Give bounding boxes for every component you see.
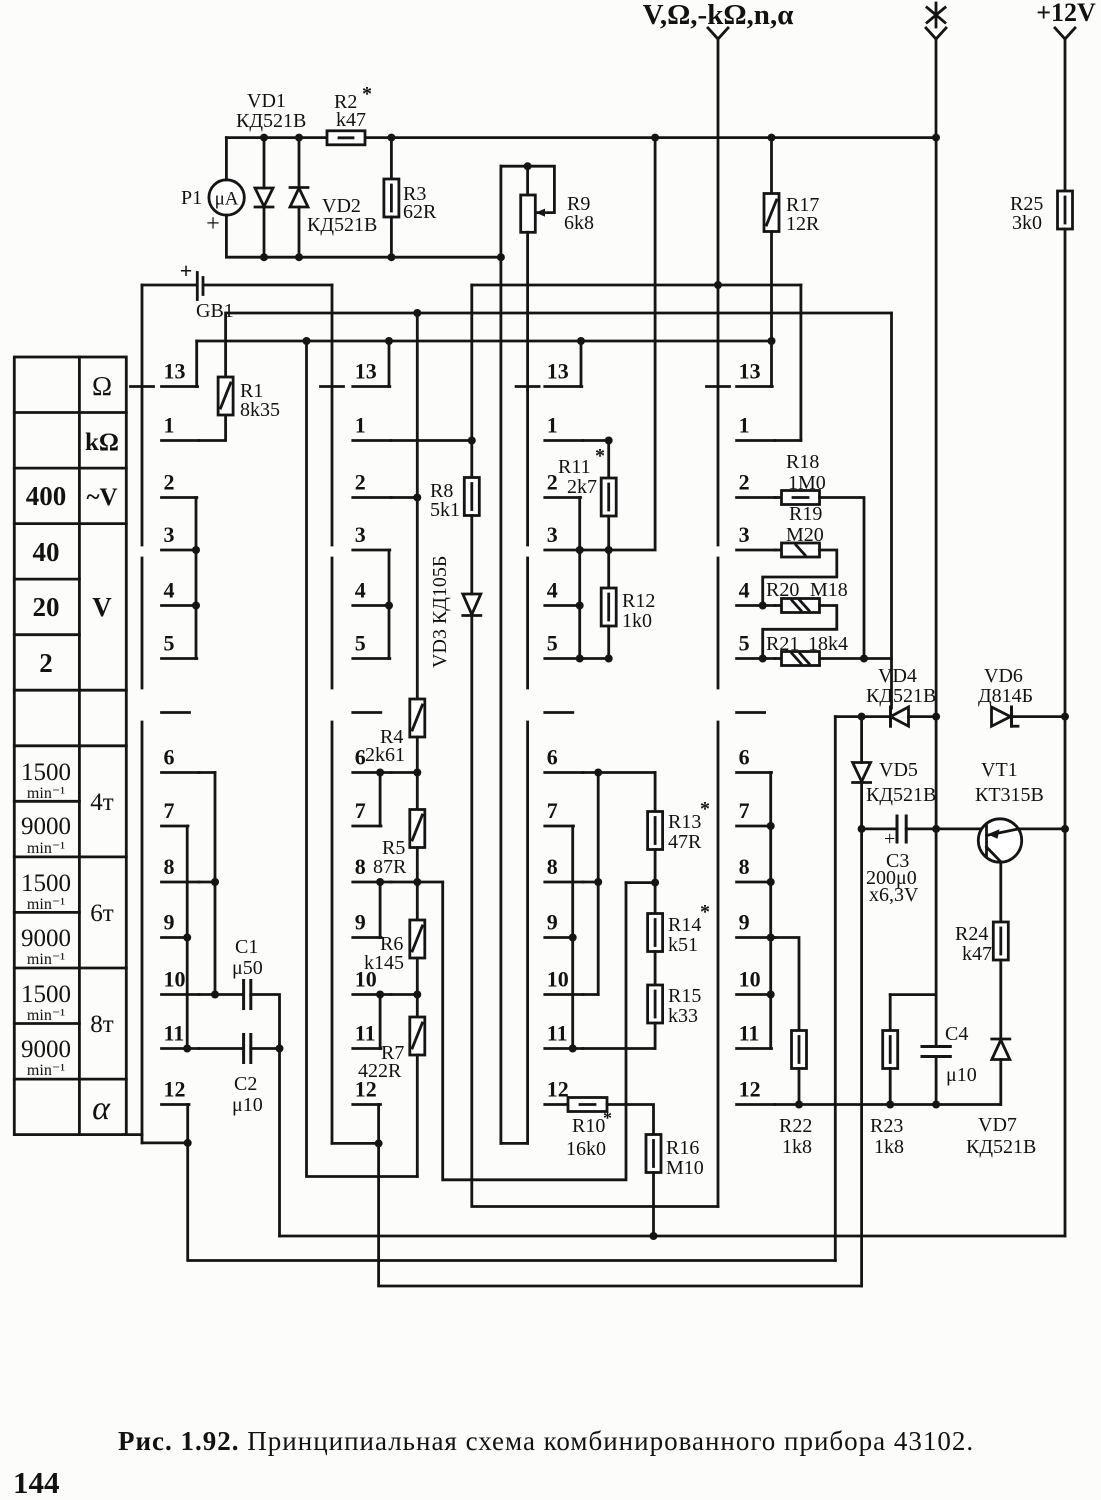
wafer 2 contact 12 xyxy=(353,1103,381,1106)
wire x306 riser y341 to R7 return xyxy=(307,341,418,1177)
svg-text:КТ315В: КТ315В xyxy=(975,784,1044,806)
wafer 3 contact 5 xyxy=(545,657,583,660)
svg-text:x6,3V: x6,3V xyxy=(869,884,919,906)
wafer3 bracket contacts 7-9-11 xyxy=(571,826,574,1049)
svg-text:КД521В: КД521В xyxy=(866,685,936,707)
svg-text:1: 1 xyxy=(547,413,558,438)
node C2 right on riser xyxy=(276,1045,284,1053)
R9 wiper arrow xyxy=(535,209,545,217)
wafer 2 contact 11 xyxy=(353,1047,381,1050)
svg-text:1500: 1500 xyxy=(21,870,71,897)
svg-text:7: 7 xyxy=(355,798,366,823)
wire R4 to R5 xyxy=(416,737,419,810)
wire +12V down to R25 xyxy=(1064,39,1067,191)
wafer3 contact1 extension to R11 xyxy=(583,439,609,442)
node R13-R14 junction xyxy=(651,879,659,887)
node P1 bottom joins R9 left line xyxy=(497,253,505,261)
node wafer4 c7 xyxy=(767,822,775,830)
node VD1 bottom xyxy=(260,253,268,261)
svg-text:3k0: 3k0 xyxy=(1012,212,1042,234)
node wafer3 c3 xyxy=(576,546,584,554)
svg-text:R11: R11 xyxy=(558,456,591,478)
wafer 2 rotor line xyxy=(331,285,334,1143)
wire terminal star down to top rail xyxy=(935,39,938,138)
wire C2 right joins riser xyxy=(251,1047,280,1050)
wire star line down right side xyxy=(935,138,938,1047)
node wafer1 c4 xyxy=(192,602,200,610)
svg-text:k47: k47 xyxy=(962,943,992,965)
svg-text:9000: 9000 xyxy=(21,1036,71,1063)
node wafer1 c3 xyxy=(192,546,200,554)
svg-text:4: 4 xyxy=(739,578,750,603)
wafer 1 contact 3 xyxy=(162,549,197,552)
wafer 1 rotor line xyxy=(141,285,144,1143)
wire R9 left line down (to bottom U-turn) xyxy=(499,166,502,1143)
svg-text:VD5: VD5 xyxy=(879,759,918,781)
wire C1 right to riser xyxy=(251,995,280,1237)
wafer 3 contact 8 xyxy=(545,881,583,884)
wafer 2 contact 7 xyxy=(353,825,381,828)
node R4 chain c10 xyxy=(413,991,421,999)
node wafer3 c11 xyxy=(569,1045,577,1053)
wafer 2 contact 13 xyxy=(353,385,390,388)
svg-text:КД521В: КД521В xyxy=(866,784,936,806)
svg-text:VD1: VD1 xyxy=(247,90,286,112)
svg-text:R16: R16 xyxy=(666,1137,699,1159)
node R17 line joins y341 xyxy=(768,337,776,345)
svg-text:12R: 12R xyxy=(786,213,820,235)
wire R23 top to C4 line xyxy=(890,993,936,996)
wafer 2 contact 4 xyxy=(353,604,390,607)
wafer 1 contact 7 xyxy=(162,825,189,828)
resistor R16 xyxy=(646,1135,661,1173)
node VD2 top xyxy=(295,134,303,142)
resistor R7 xyxy=(410,1017,425,1055)
wafer 1 contact 11 xyxy=(162,1047,200,1050)
svg-text:3: 3 xyxy=(547,522,558,547)
wire R9 top loop xyxy=(501,166,555,212)
svg-text:7: 7 xyxy=(547,798,558,823)
svg-text:R10: R10 xyxy=(572,1115,605,1137)
svg-text:GB1: GB1 xyxy=(196,300,234,322)
wafer 3 contact 2 xyxy=(545,496,581,499)
svg-text:V: V xyxy=(92,592,112,622)
svg-text:min⁻¹: min⁻¹ xyxy=(27,785,65,802)
resistor R8 xyxy=(464,478,479,516)
wire R8 to VD3 xyxy=(470,516,473,595)
svg-text:10: 10 xyxy=(164,967,186,992)
wafer 4 contact 11 xyxy=(737,1047,772,1050)
svg-text:1k8: 1k8 xyxy=(874,1136,904,1158)
wafer1 contact11 extension to C2 xyxy=(199,1047,244,1050)
wire wafer2 c8 riser down and across to R13-R14 junction riser xyxy=(443,882,626,1180)
wafer4 contact1 extension to riser xyxy=(775,439,801,442)
svg-text:12: 12 xyxy=(547,1077,569,1102)
wire wafer2 rotor bottom to junction xyxy=(332,1142,379,1145)
node VD5 top on rail xyxy=(858,713,866,721)
wafer 4 contact 6 xyxy=(737,771,772,774)
wire VD3 down to bus y1206 xyxy=(472,616,718,1207)
wafer 2 wiper tick xyxy=(321,385,344,388)
wire R1 top rail y313 xyxy=(226,312,891,315)
diode VD4 xyxy=(889,707,892,726)
svg-text:87R: 87R xyxy=(373,856,407,878)
wafer 4 contact 9 xyxy=(737,936,775,939)
svg-text:1500: 1500 xyxy=(21,759,71,786)
svg-text:R14: R14 xyxy=(668,914,701,936)
wire VT1 emitter to +12V line xyxy=(1019,828,1066,831)
node R12 bottom on c5 line xyxy=(605,655,613,663)
wafer 4 contact 7 xyxy=(737,825,772,828)
wafer2 contact12 hook down xyxy=(377,1105,380,1144)
wafer4 contact2 extension xyxy=(775,496,782,499)
node R3 bottom xyxy=(387,253,395,261)
wafer3 bracket contacts 2-3-4-5 xyxy=(578,498,581,659)
wafer 3 contact 4 xyxy=(545,604,581,607)
svg-text:R12: R12 xyxy=(622,590,655,612)
svg-text:1k0: 1k0 xyxy=(622,610,652,632)
node wafer2 c8 bracket xyxy=(376,878,384,886)
node wafer3 c5 xyxy=(576,655,584,663)
node C4 on c12 wire xyxy=(932,1101,940,1109)
wafer3 bracket contacts 6-8-10 xyxy=(597,773,600,995)
wafer 3 rotor line xyxy=(526,390,529,1143)
wafer2 bracket contacts 6-7 xyxy=(379,773,382,827)
svg-text:5: 5 xyxy=(547,631,558,656)
wafer4 contact5 extension xyxy=(775,657,782,660)
wafer 2 contact 8 xyxy=(353,881,391,884)
svg-text:R13: R13 xyxy=(668,811,701,833)
svg-text:2: 2 xyxy=(739,470,750,495)
wire wafer4 stub1 riser xyxy=(800,285,803,441)
svg-text:VD7: VD7 xyxy=(978,1114,1017,1136)
svg-text:M18: M18 xyxy=(810,579,848,601)
node R18 riser on R21 wire xyxy=(860,655,868,663)
svg-text:КД521В: КД521В xyxy=(307,214,377,236)
wire R23 bottom to c12 wire xyxy=(889,1069,892,1105)
svg-text:13: 13 xyxy=(164,359,186,384)
wafer 1 contact 5 xyxy=(162,657,197,660)
wafer 4 rotor line xyxy=(717,285,720,1207)
terminal chevron +12V xyxy=(1055,28,1075,39)
svg-text:~V: ~V xyxy=(86,484,117,511)
wafer2 bracket contacts 8-9 xyxy=(379,882,382,938)
wafer3 contact5 extension xyxy=(583,657,609,660)
svg-text:VD4: VD4 xyxy=(878,665,917,687)
svg-text:144: 144 xyxy=(13,1465,60,1500)
resistor R10 xyxy=(568,1098,607,1112)
wafer 3 contact 9 xyxy=(545,936,574,939)
svg-text:min⁻¹: min⁻¹ xyxy=(27,1007,65,1024)
wafer 3 contact 7 xyxy=(545,825,574,828)
svg-text:*: * xyxy=(700,798,710,820)
svg-text:6: 6 xyxy=(547,745,558,770)
wafer1 contact13 hook up to y341 xyxy=(195,341,198,387)
svg-text:+: + xyxy=(884,828,895,850)
svg-text:μ10: μ10 xyxy=(946,1064,977,1086)
svg-text:R22: R22 xyxy=(779,1115,812,1137)
wafer 3 contact 1 xyxy=(545,439,583,442)
wire R24 to VD7 xyxy=(999,960,1002,1039)
node wafer3 c6 bracket xyxy=(594,769,602,777)
svg-text:1500: 1500 xyxy=(21,981,71,1008)
wire R10 right to R16 xyxy=(607,1105,654,1135)
svg-text:min⁻¹: min⁻¹ xyxy=(27,840,65,857)
svg-text:5: 5 xyxy=(355,631,366,656)
transistor VT1 emitter xyxy=(987,829,1019,836)
svg-text:C4: C4 xyxy=(945,1023,968,1045)
svg-text:*: * xyxy=(700,901,710,923)
svg-text:1: 1 xyxy=(164,413,175,438)
svg-text:9: 9 xyxy=(547,910,558,935)
node R9 top junction xyxy=(524,162,532,170)
wafer 3 contact 3 xyxy=(545,549,583,552)
wafer 1 contact 12 xyxy=(162,1103,190,1106)
svg-text:μA: μA xyxy=(215,189,239,210)
wire VD4 net left riser down to wafer1 bus xyxy=(834,717,837,1261)
svg-text:8: 8 xyxy=(355,854,366,879)
resistor R1 xyxy=(224,313,227,377)
wire U-turn R9 line to wafer3 rotor bottom xyxy=(501,1142,528,1145)
resistor R15 xyxy=(648,985,663,1023)
node R3 top xyxy=(387,134,395,142)
svg-text:R21: R21 xyxy=(766,633,799,655)
wafer 4 contact 3 xyxy=(737,549,775,552)
wire wafer3 c8 extension xyxy=(583,881,598,884)
svg-text:6k8: 6k8 xyxy=(564,212,594,234)
svg-text:α: α xyxy=(92,1090,111,1127)
svg-text:11: 11 xyxy=(355,1021,376,1046)
resistor R25 xyxy=(1058,191,1073,229)
wire R20 loop to contact5 xyxy=(763,606,837,659)
node R4 chain c8 xyxy=(413,878,421,886)
wafer 2 contact 2 xyxy=(353,496,391,499)
svg-text:8: 8 xyxy=(164,854,175,879)
node R20 loop on contact5 xyxy=(759,655,767,663)
svg-text:R23: R23 xyxy=(870,1115,903,1137)
node wafer3 c8 xyxy=(594,878,602,886)
resistor R22 xyxy=(792,1031,807,1069)
svg-text:4: 4 xyxy=(547,578,558,603)
svg-text:R20: R20 xyxy=(766,579,799,601)
resistor R18 xyxy=(782,491,820,505)
svg-text:400: 400 xyxy=(26,481,67,511)
node wafer2 bottom junction xyxy=(375,1139,383,1147)
svg-text:10: 10 xyxy=(739,967,761,992)
wafer 1 contact 8 xyxy=(162,881,200,884)
svg-text:1M0: 1M0 xyxy=(788,472,826,494)
wire R21 right to VD4 riser xyxy=(820,657,892,660)
node wafer2 c10 bracket xyxy=(376,991,384,999)
svg-text:2: 2 xyxy=(355,470,366,495)
wafer 3 contact 12 xyxy=(545,1103,583,1106)
svg-text:4: 4 xyxy=(164,578,175,603)
svg-text:M10: M10 xyxy=(666,1157,704,1179)
svg-text:10: 10 xyxy=(547,967,569,992)
diode VD5 xyxy=(860,717,863,763)
resistor R3 xyxy=(390,138,393,179)
svg-text:4т: 4т xyxy=(90,789,114,816)
svg-text:КД521В: КД521В xyxy=(236,110,306,132)
wire wafer2 net down to lowest bus xyxy=(379,1143,862,1286)
svg-text:+: + xyxy=(206,211,220,237)
resistor R6 xyxy=(410,920,425,958)
node wafer2 c4 xyxy=(385,602,393,610)
svg-text:3: 3 xyxy=(355,522,366,547)
node R4 chain c6 xyxy=(413,769,421,777)
svg-text:μ50: μ50 xyxy=(232,957,263,979)
svg-text:8т: 8т xyxy=(90,1011,114,1038)
wafer4 contact9 extension to R22 xyxy=(775,938,799,1031)
svg-text:5: 5 xyxy=(739,631,750,656)
svg-text:2: 2 xyxy=(547,470,558,495)
svg-text:*: * xyxy=(362,83,372,105)
wafer4 contact4 extension xyxy=(775,604,782,607)
svg-text:11: 11 xyxy=(739,1021,760,1046)
svg-text:7: 7 xyxy=(739,798,750,823)
wafer 4 wiper tick xyxy=(707,385,730,388)
wafer2 contact10 extension xyxy=(391,993,417,996)
wafer 4 contact 10 xyxy=(737,993,772,996)
svg-text:VT1: VT1 xyxy=(981,759,1018,781)
wire P1 bottom to rail y257 xyxy=(226,215,501,257)
svg-text:6: 6 xyxy=(164,745,175,770)
node wafer4 c10 xyxy=(767,991,775,999)
svg-text:C1: C1 xyxy=(235,936,258,958)
wafer1 contact10 extension to C1 xyxy=(199,993,244,996)
svg-text:C2: C2 xyxy=(234,1073,257,1095)
capacitor C4 xyxy=(922,1045,950,1048)
svg-text:11: 11 xyxy=(547,1021,568,1046)
node VD2 bottom xyxy=(295,253,303,261)
wire R6 to R7 xyxy=(416,958,419,1017)
wire wafer1 c8 extension xyxy=(199,881,215,884)
node wafer1 c9 xyxy=(183,934,191,942)
svg-text:20: 20 xyxy=(33,592,60,622)
wire R16 bottom to bus xyxy=(652,1173,655,1237)
resistor R11 xyxy=(607,441,610,479)
wafer4 contact12 wire across to VD7 xyxy=(775,1103,1000,1106)
svg-text:min⁻¹: min⁻¹ xyxy=(27,1062,65,1079)
wafer 2 contact 3 xyxy=(353,549,390,552)
wire R22 bottom to contact12 wire xyxy=(798,1069,801,1105)
node R22 on c12 wire xyxy=(795,1101,803,1109)
svg-text:47R: 47R xyxy=(668,831,702,853)
svg-text:1: 1 xyxy=(355,413,366,438)
wafer 1 contact 4 xyxy=(162,604,197,607)
svg-text:VD3 КД105Б: VD3 КД105Б xyxy=(429,556,451,668)
svg-text:2: 2 xyxy=(164,470,175,495)
node R4 chain top xyxy=(413,309,421,317)
svg-text:9: 9 xyxy=(739,910,750,935)
wire battery left to wafer1 rotor xyxy=(142,284,196,287)
svg-text:2k7: 2k7 xyxy=(567,476,597,498)
svg-text:R24: R24 xyxy=(955,923,988,945)
svg-text:9: 9 xyxy=(355,910,366,935)
svg-text:k33: k33 xyxy=(668,1005,698,1027)
resistor R14 xyxy=(648,914,663,952)
node wafer3 c9 xyxy=(569,934,577,942)
wire C3 base rail y829 xyxy=(862,828,987,831)
node wafer3 c4 xyxy=(576,602,584,610)
terminal chevron star xyxy=(926,28,946,39)
node R11 rail tap xyxy=(651,134,659,142)
resistor R12 xyxy=(601,588,616,626)
wafer1 contact12 hook down xyxy=(186,1105,189,1143)
resistor R13 xyxy=(654,773,657,812)
wire wafer3 c10 extension xyxy=(583,993,598,996)
svg-text:9000: 9000 xyxy=(21,925,71,952)
node VD1 top xyxy=(260,134,268,142)
wafer3 contact13 hook up xyxy=(580,341,583,387)
range table frame xyxy=(14,357,126,1135)
svg-text:2: 2 xyxy=(39,648,53,678)
bottom bus y1236 xyxy=(280,1235,1066,1238)
wafer 3 rotor arm dash mark xyxy=(545,711,573,714)
node wafer1 bottom junction xyxy=(184,1139,192,1147)
wire R13-R14 junction stub left to x626 riser xyxy=(626,881,655,884)
node wafer4 c8 xyxy=(767,878,775,886)
diode VD7 xyxy=(992,1038,1010,1041)
wire R14 to R15 xyxy=(654,952,657,986)
wafer 4 contact 5 xyxy=(737,657,775,660)
wafer 4 contact 12 xyxy=(737,1103,775,1106)
svg-text:k51: k51 xyxy=(668,934,698,956)
wafer2 contact1 extension to VD3 line xyxy=(391,439,472,442)
wafer 4 contact 4 xyxy=(737,604,775,607)
svg-text:11: 11 xyxy=(164,1021,185,1046)
battery GB1 xyxy=(196,273,199,300)
wafer4 contact3 extension xyxy=(775,549,782,552)
terminal star symbol xyxy=(927,3,945,27)
svg-text:16k0: 16k0 xyxy=(566,1138,606,1160)
svg-text:8: 8 xyxy=(547,854,558,879)
potentiometer R9 xyxy=(521,195,536,232)
node wafer1 c10 joins C1 wire xyxy=(211,991,219,999)
wafer2 contact2 extension to R4 line xyxy=(391,496,417,499)
node R16 on bus y1236 xyxy=(650,1232,658,1240)
wafer 1 contact 13 xyxy=(162,385,198,388)
svg-text:8: 8 xyxy=(739,854,750,879)
wafer 1 rotor arm dash mark xyxy=(162,711,190,714)
wire VD4 node rail y717 xyxy=(835,715,1065,718)
svg-text:kΩ: kΩ xyxy=(85,429,119,456)
svg-text:1: 1 xyxy=(739,413,750,438)
wire terminal V down to node at y285 xyxy=(717,39,720,285)
svg-text:k145: k145 xyxy=(364,952,404,974)
resistor R5 xyxy=(410,810,425,848)
wire battery right to wafer2 rotor xyxy=(206,284,333,287)
wafer 1 contact 6 xyxy=(162,771,200,774)
svg-text:9: 9 xyxy=(164,910,175,935)
node +12V line on rail xyxy=(1061,713,1069,721)
node x306 tap xyxy=(303,337,311,345)
wire mid rail y285 from VD3 line to wafer4 stub1 line xyxy=(472,284,801,287)
capacitor C2 xyxy=(242,1035,245,1063)
wafer1 bracket contacts 2-5 xyxy=(195,498,198,659)
wire P1 top xyxy=(225,138,228,180)
svg-text:2k61: 2k61 xyxy=(365,744,405,766)
wafer 3 wiper tick xyxy=(516,385,539,388)
wire C4 bottom to c12 wire xyxy=(935,1057,938,1105)
wire R15 bottom to contact11 line xyxy=(654,1023,657,1049)
svg-text:V,Ω,-kΩ,n,α: V,Ω,-kΩ,n,α xyxy=(643,0,794,31)
wire VD5 net riser down to wafer2 bus xyxy=(860,829,863,1286)
node wafer4 c9 xyxy=(767,934,775,942)
wafer3 contact6 extension to R13 line xyxy=(583,771,655,774)
svg-text:R15: R15 xyxy=(668,985,701,1007)
resistor R19 xyxy=(782,543,820,557)
